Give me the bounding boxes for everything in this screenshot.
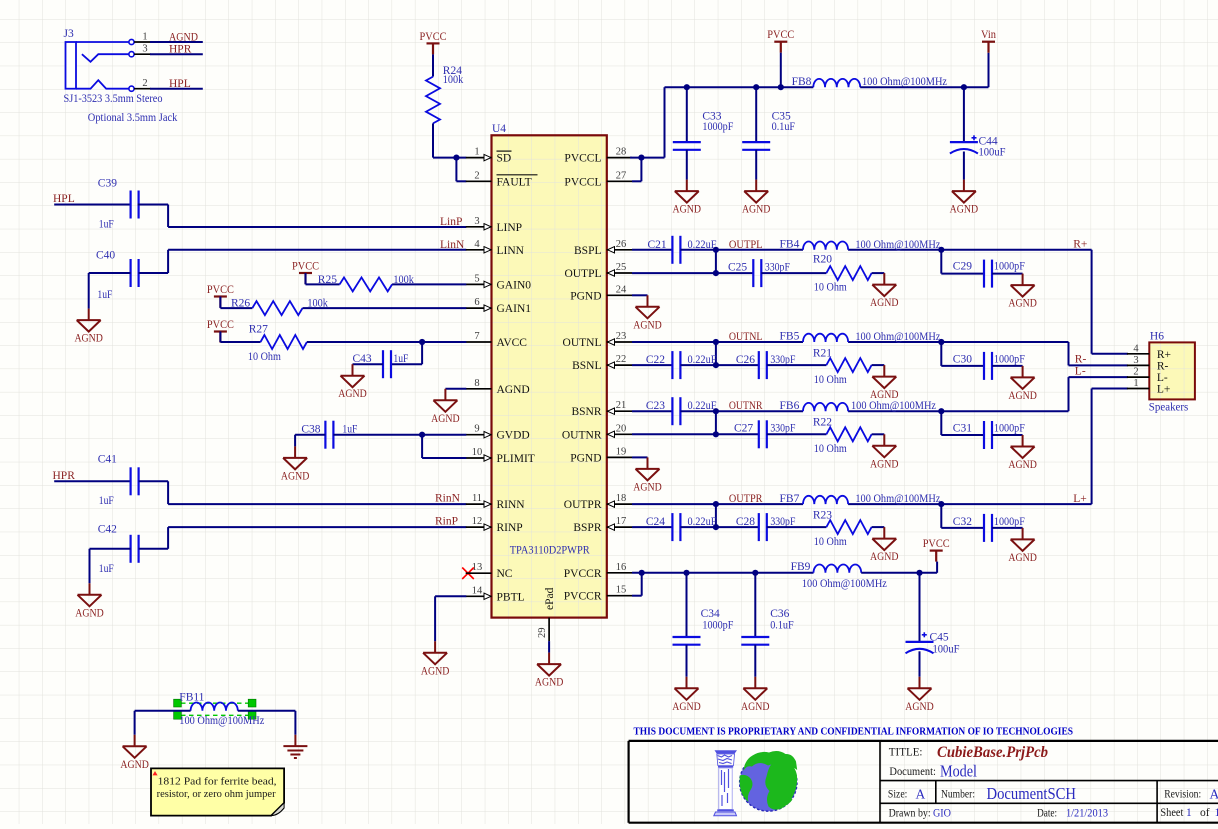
svg-text:AGND: AGND <box>870 551 899 563</box>
svg-text:Speakers: Speakers <box>1149 402 1189 414</box>
net label R+ <box>1073 239 1087 251</box>
designator R25 <box>318 274 337 286</box>
svg-text:19: 19 <box>616 446 627 457</box>
svg-text:PGND: PGND <box>570 452 601 464</box>
wire C43 to ground <box>353 363 384 365</box>
svg-text:C22: C22 <box>646 354 665 366</box>
svg-text:4: 4 <box>474 239 480 250</box>
J3 pin 1 line <box>134 41 203 43</box>
svg-text:R+: R+ <box>1073 239 1087 251</box>
svg-text:R23: R23 <box>813 509 832 521</box>
svg-text:PVCC: PVCC <box>292 261 319 273</box>
ground AGND at R21 <box>870 365 899 401</box>
svg-text:1000pF: 1000pF <box>702 121 733 133</box>
U4 pin 22 BSNL <box>572 354 632 372</box>
junction at C44 <box>961 84 967 90</box>
svg-text:AGND: AGND <box>673 204 702 216</box>
U4 pin 21 BSNR <box>571 400 632 418</box>
svg-text:1: 1 <box>1186 807 1192 819</box>
resistor R27 <box>261 335 307 349</box>
svg-text:FB9: FB9 <box>791 561 811 573</box>
designator C25 <box>728 261 747 273</box>
svg-text:of: of <box>1200 807 1210 819</box>
svg-text:21: 21 <box>616 400 627 411</box>
svg-text:1000pF: 1000pF <box>994 354 1025 366</box>
wire HPL to C39 <box>54 204 130 206</box>
svg-text:L-: L- <box>1075 366 1086 378</box>
junction OUTNR to C31 <box>938 408 944 414</box>
svg-text:1000pF: 1000pF <box>994 423 1025 435</box>
designator FB8 <box>792 76 812 88</box>
designator C34 <box>701 608 720 620</box>
svg-text:AGND: AGND <box>120 759 149 771</box>
svg-text:A: A <box>916 787 926 802</box>
ferrite bead FB6 <box>803 403 848 411</box>
wire OUTNR pin to snubber <box>632 433 716 435</box>
junction OUTPL to C29 <box>938 247 944 253</box>
svg-text:THIS DOCUMENT IS PROPRIETARY A: THIS DOCUMENT IS PROPRIETARY AND CONFIDE… <box>634 725 1074 737</box>
capacitor C23 <box>672 397 680 425</box>
svg-text:Revision:: Revision: <box>1164 789 1201 801</box>
svg-text:AGND: AGND <box>169 31 198 43</box>
svg-text:29: 29 <box>537 628 548 639</box>
designator C27 <box>734 423 753 435</box>
designator FB7 <box>780 493 800 505</box>
svg-text:1uF: 1uF <box>99 218 114 230</box>
wire C38 left to ground <box>295 435 325 447</box>
value 1000pF of C33 <box>702 121 733 133</box>
svg-text:GAIN0: GAIN0 <box>497 279 532 291</box>
wire C42 left to ground <box>90 549 131 584</box>
wire C41 to RINN <box>139 481 467 504</box>
designator C33 <box>702 110 721 122</box>
resistor R20 <box>826 266 871 280</box>
junction PVCCR pins <box>639 570 645 576</box>
svg-text:C30: C30 <box>953 354 972 366</box>
svg-text:OUTNL: OUTNL <box>563 337 602 349</box>
svg-text:L+: L+ <box>1073 493 1087 505</box>
ferrite bead FB7 <box>803 496 848 504</box>
designator R23 <box>813 509 832 521</box>
junction OUTPR to C32 <box>938 501 944 507</box>
U4 pin 3 LINP <box>466 216 522 234</box>
value 10 Ohm of R23 <box>814 536 847 548</box>
svg-text:AGND: AGND <box>74 333 103 345</box>
designator C21 <box>648 239 667 251</box>
net label HPL at J3 pin 2 <box>169 78 191 90</box>
svg-text:PLIMIT: PLIMIT <box>497 453 535 465</box>
svg-text:L-: L- <box>1157 372 1168 384</box>
svg-text:FAULT: FAULT <box>497 176 532 188</box>
title block TITLE label <box>889 747 923 759</box>
junction OUTNL bootstrap <box>713 339 719 345</box>
svg-text:AGND: AGND <box>1008 552 1037 564</box>
U4 pin 26 BSPL <box>574 239 632 257</box>
svg-text:100 Ohm@100MHz: 100 Ohm@100MHz <box>855 493 940 505</box>
designator C41 <box>98 454 117 466</box>
ground AGND at FB11 <box>120 735 149 771</box>
svg-text:Drawn by:: Drawn by: <box>889 808 931 820</box>
svg-text:NC: NC <box>497 568 513 580</box>
capacitor C21 <box>672 236 680 264</box>
svg-text:SJ1-3523 3.5mm Stereo: SJ1-3523 3.5mm Stereo <box>64 93 163 105</box>
capacitor C25 <box>716 259 761 287</box>
capacitor C33 <box>673 87 701 179</box>
svg-text:25: 25 <box>616 262 627 273</box>
power port PVCC above R24 <box>420 31 447 55</box>
junction OUTPL snubber <box>713 270 719 276</box>
resistor R25 <box>340 277 393 291</box>
wire C26 to R21 <box>767 364 827 366</box>
svg-text:3: 3 <box>474 216 479 227</box>
net label OUTPR <box>729 493 763 505</box>
svg-text:L+: L+ <box>1157 384 1171 396</box>
svg-text:RINN: RINN <box>497 499 526 511</box>
wire BSNL pin to C22 <box>632 364 672 366</box>
designator C29 <box>953 261 972 273</box>
designator R22 <box>813 417 832 429</box>
svg-text:C40: C40 <box>96 249 115 261</box>
designator C45 <box>930 632 949 644</box>
svg-text:AGND: AGND <box>633 481 662 493</box>
svg-text:AGND: AGND <box>870 458 899 470</box>
svg-text:C28: C28 <box>736 516 755 528</box>
svg-text:1: 1 <box>142 32 147 43</box>
svg-text:100uF: 100uF <box>933 644 960 656</box>
svg-text:BSNL: BSNL <box>572 360 601 372</box>
wire PVCCL pins to supply bus <box>630 87 665 181</box>
junction at PVCC port <box>778 84 784 90</box>
designator R26 <box>231 298 250 310</box>
U4 pin 25 OUTPL <box>564 262 632 280</box>
net label LinP <box>440 216 462 228</box>
U4 pin 10 PLIMIT <box>466 447 535 465</box>
junction at C35 <box>753 84 759 90</box>
U4 pin 14 PBTL <box>466 585 525 603</box>
sticky note about 1812 pad <box>151 768 284 815</box>
svg-text:C26: C26 <box>736 354 755 366</box>
svg-text:LINN: LINN <box>497 245 525 257</box>
J3 pin number 3 <box>142 44 147 55</box>
ground AGND at pin 19 <box>633 457 662 493</box>
svg-text:OUTNL: OUTNL <box>729 331 763 343</box>
ground AGND at C38 <box>281 446 310 482</box>
ground AGND at C45 <box>905 677 934 713</box>
svg-text:AGND: AGND <box>497 384 530 396</box>
wire R20 to ground <box>872 272 885 274</box>
svg-text:9: 9 <box>474 424 479 435</box>
wire R22 to ground <box>872 433 885 435</box>
svg-text:AGND: AGND <box>1008 390 1037 402</box>
wire R26 to GAIN1 <box>303 307 467 309</box>
wire C25 to R20 <box>761 272 826 274</box>
capacitor C34 <box>673 573 701 677</box>
svg-text:BSPR: BSPR <box>573 522 601 534</box>
svg-text:1: 1 <box>1215 807 1218 819</box>
designator C43 <box>353 353 372 365</box>
value 0.22uF of C24 <box>688 516 717 528</box>
ground AGND at C30 <box>1008 366 1037 402</box>
net label R- <box>1075 354 1087 366</box>
junction at C34 <box>683 570 689 576</box>
designator C39 <box>98 177 117 189</box>
resistor R23 <box>826 520 871 534</box>
svg-text:PGND: PGND <box>570 290 601 302</box>
svg-text:CubieBase.PrjPcb: CubieBase.PrjPcb <box>937 744 1048 761</box>
value 100 Ohm@100MHz of FB9 <box>802 578 887 590</box>
svg-text:10: 10 <box>472 447 483 458</box>
capacitor C30 <box>941 342 1022 380</box>
polarized capacitor C45 <box>906 573 934 677</box>
wire AGND pin 8 <box>445 388 466 390</box>
designator FB4 <box>780 239 800 251</box>
designator U4 <box>492 123 506 135</box>
svg-text:C42: C42 <box>98 523 117 535</box>
net label HPL at C39 input <box>53 193 75 205</box>
power port PVCC for R26 <box>207 284 234 308</box>
power port PVCC at FB9 <box>923 538 950 562</box>
value 330pF of C27 <box>770 423 795 435</box>
designator R20 <box>813 254 832 266</box>
value 1000pF of C29 <box>994 261 1025 273</box>
net label OUTNR <box>729 400 763 412</box>
svg-text:U4: U4 <box>492 123 506 135</box>
U4 pin 1 SD <box>466 147 512 165</box>
power port PVCC above bus <box>767 29 794 53</box>
ground AGND at C34 <box>672 677 701 713</box>
svg-text:Date:: Date: <box>1037 808 1057 820</box>
wire AVCC to C43 <box>391 342 422 364</box>
svg-text:C21: C21 <box>648 239 667 251</box>
wire C40 to LINN <box>139 250 467 273</box>
svg-text:AGND: AGND <box>431 413 460 425</box>
junction at C36 <box>752 570 758 576</box>
svg-text:7: 7 <box>474 331 479 342</box>
title block Size label and value <box>888 787 926 802</box>
op IC U4 body fill (yellow) <box>492 135 607 617</box>
polarized capacitor C44 <box>950 87 978 179</box>
svg-text:FB11: FB11 <box>179 691 204 703</box>
svg-text:FB5: FB5 <box>780 331 800 343</box>
ground AGND at PBTL <box>421 641 450 677</box>
wire OUTNL net run <box>632 342 1128 365</box>
ground AGND at C35 <box>742 180 771 216</box>
net label LinN <box>440 239 465 251</box>
U4 pin 9 GVDD <box>466 424 530 442</box>
ground AGND at R22 <box>870 434 899 470</box>
capacitor C41 <box>131 467 139 495</box>
designator C22 <box>646 354 665 366</box>
svg-text:R20: R20 <box>813 254 832 266</box>
svg-text:26: 26 <box>616 239 627 250</box>
value 10 Ohm of R22 <box>814 443 847 455</box>
svg-text:12: 12 <box>472 516 483 527</box>
wire FB11 right to earth ground <box>238 711 296 735</box>
svg-text:A: A <box>1210 787 1218 802</box>
capacitor C26 <box>716 351 767 379</box>
designator R24 <box>443 65 462 77</box>
J3 part name SJ1-3523 3.5mm Stereo <box>64 93 163 105</box>
svg-text:330pF: 330pF <box>770 423 795 435</box>
ground AGND at C33 <box>673 180 702 216</box>
svg-text:20: 20 <box>616 423 627 434</box>
resistor R22 <box>826 427 871 441</box>
svg-text:R27: R27 <box>249 324 268 336</box>
designator C40 <box>96 249 115 261</box>
wire FB11 left to ground <box>135 711 191 735</box>
capacitor C36 <box>741 573 769 677</box>
svg-text:FB7: FB7 <box>780 493 800 505</box>
title block project name CubieBase.PrjPcb <box>937 744 1048 761</box>
op IC U4 body border <box>492 135 607 617</box>
U4 pin 20 OUTNR <box>562 423 632 441</box>
ground AGND at C31 <box>1008 435 1037 471</box>
designator R21 <box>813 347 832 359</box>
value 1000pF of C31 <box>994 423 1025 435</box>
svg-text:RINP: RINP <box>497 522 523 534</box>
ground AGND at R23 <box>870 527 899 563</box>
no-connect X marker at pin 13 <box>462 568 474 580</box>
svg-text:AGND: AGND <box>742 204 771 216</box>
svg-text:AGND: AGND <box>1008 298 1037 310</box>
svg-text:17: 17 <box>616 516 627 527</box>
value 100k of R24 <box>443 74 464 86</box>
net label OUTPL <box>729 239 763 251</box>
ground AGND below C40 <box>74 309 103 345</box>
svg-text:BSPL: BSPL <box>574 245 602 257</box>
svg-text:23: 23 <box>616 331 627 342</box>
svg-text:1uF: 1uF <box>99 563 114 575</box>
junction at C45 <box>916 570 922 576</box>
capacitor C32 <box>941 504 1022 542</box>
svg-text:RinN: RinN <box>435 493 461 505</box>
net label OUTNL <box>729 331 763 343</box>
svg-text:10 Ohm: 10 Ohm <box>814 282 847 294</box>
svg-text:10 Ohm: 10 Ohm <box>248 351 281 363</box>
value 100 Ohm@100MHz of FB6 <box>851 400 936 412</box>
svg-text:1000pF: 1000pF <box>994 261 1025 273</box>
svg-text:RinP: RinP <box>435 516 458 528</box>
svg-text:DocumentSCH: DocumentSCH <box>987 784 1077 803</box>
junction at AVCC and C43 <box>419 339 425 345</box>
U4 pin 19 PGND <box>570 446 632 464</box>
svg-text:100uF: 100uF <box>979 147 1006 159</box>
svg-text:R-: R- <box>1157 360 1169 372</box>
designator C42 <box>98 523 117 535</box>
svg-text:AGND: AGND <box>672 701 701 713</box>
wire C42 to RINP <box>139 527 467 549</box>
wire R27 to AVCC pin <box>307 341 466 343</box>
capacitor C22 <box>672 351 680 379</box>
wire C40 left to ground <box>89 273 131 309</box>
svg-text:1000pF: 1000pF <box>994 516 1025 528</box>
designator C36 <box>770 608 789 620</box>
svg-text:LINP: LINP <box>497 222 523 234</box>
value 1uF of C41 <box>99 495 114 507</box>
svg-text:TPA3110D2PWPR: TPA3110D2PWPR <box>510 545 590 557</box>
value 1uF of C43 <box>393 353 408 365</box>
svg-text:Sheet: Sheet <box>1160 807 1184 819</box>
ground AGND at C44 <box>950 180 979 216</box>
svg-text:100 Ohm@100MHz: 100 Ohm@100MHz <box>855 331 940 343</box>
wire HPR to C41 <box>54 480 130 482</box>
net label HPR at J3 pin 3 <box>169 44 192 56</box>
svg-text:FB6: FB6 <box>780 400 800 412</box>
svg-text:GAIN1: GAIN1 <box>497 303 532 315</box>
ferrite bead FB11 coil <box>191 703 238 711</box>
svg-text:C29: C29 <box>953 261 972 273</box>
svg-text:PVCC: PVCC <box>420 31 447 43</box>
earth ground at FB11 <box>283 735 307 758</box>
junction BSNL snubber <box>713 362 719 368</box>
capacitor C40 <box>131 259 139 287</box>
designator H6 <box>1150 331 1164 343</box>
net label HPR at C41 input <box>53 470 76 482</box>
svg-text:OUTNR: OUTNR <box>729 400 763 412</box>
svg-text:R-: R- <box>1075 354 1087 366</box>
svg-text:PVCCR: PVCCR <box>564 568 602 580</box>
junction at C33 <box>684 84 690 90</box>
junction OUTNL to C30 <box>938 339 944 345</box>
svg-text:100 Ohm@100MHz: 100 Ohm@100MHz <box>851 400 936 412</box>
ground AGND at C29 <box>1008 274 1037 310</box>
wire C38 to GVDD and PLIMIT <box>333 435 466 458</box>
svg-text:18: 18 <box>616 493 627 504</box>
svg-text:FB8: FB8 <box>792 76 812 88</box>
value 100uF of C44 <box>979 147 1006 159</box>
value 0.1uF of C35 <box>772 121 796 133</box>
svg-text:AGND: AGND <box>633 319 662 331</box>
svg-text:330pF: 330pF <box>765 261 790 273</box>
svg-text:1uF: 1uF <box>97 289 112 301</box>
svg-text:Vin: Vin <box>981 29 996 41</box>
value 10 Ohm of R21 <box>814 374 847 386</box>
J3 pin 2 line <box>134 88 203 90</box>
ferrite bead FB9 <box>814 564 862 572</box>
svg-text:14: 14 <box>472 585 483 596</box>
value 100k of R26 <box>307 298 328 310</box>
wire R24 to SD and FAULT pins <box>433 123 466 181</box>
svg-text:HPL: HPL <box>53 193 75 205</box>
svg-text:5: 5 <box>474 273 479 284</box>
svg-text:3: 3 <box>142 44 147 55</box>
svg-text:AGND: AGND <box>905 701 934 713</box>
value 1000pF of C32 <box>994 516 1025 528</box>
H6 pin 1 L+ <box>1127 378 1171 396</box>
designator C26 <box>736 354 755 366</box>
svg-text:2: 2 <box>142 78 147 89</box>
svg-text:C23: C23 <box>646 400 665 412</box>
svg-text:ePad: ePad <box>544 587 556 610</box>
title block document name Model <box>940 762 977 781</box>
junction OUTNR bootstrap <box>713 408 719 414</box>
junction OUTNR snubber <box>713 431 719 437</box>
svg-text:AGND: AGND <box>421 665 450 677</box>
svg-text:1: 1 <box>474 147 479 158</box>
net label L+ <box>1073 493 1087 505</box>
junction OUTPL bootstrap <box>713 247 719 253</box>
logo globe graphic <box>740 751 798 811</box>
wire BSPL pin to C21 <box>632 249 672 251</box>
svg-text:100 Ohm@100MHz: 100 Ohm@100MHz <box>179 715 264 727</box>
designator FB6 <box>780 400 800 412</box>
value 100 Ohm@100MHz of FB11 <box>179 715 264 727</box>
U4 pin 7 AVCC <box>466 331 527 349</box>
value 1uF of C38 <box>342 424 357 436</box>
designator C44 <box>979 136 998 148</box>
value 1uF of C42 <box>99 563 114 575</box>
svg-text:BSNR: BSNR <box>571 406 601 418</box>
